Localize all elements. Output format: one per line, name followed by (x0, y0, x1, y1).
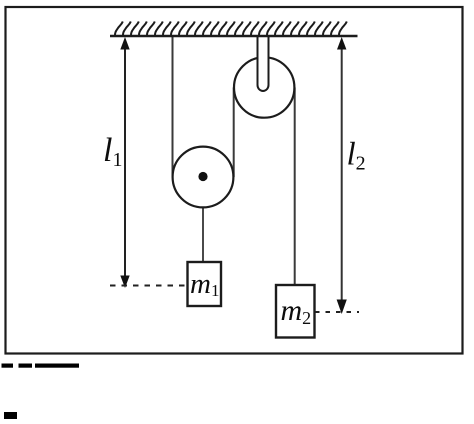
dashed reference line at m1 level (110, 285, 187, 287)
axle of pulley P1 (198, 172, 207, 181)
dashed reference line at m2 level (315, 311, 359, 313)
pulley P2 (fixed) (234, 57, 294, 117)
rope: movable pulley axle to mass m1 (202, 177, 204, 262)
mass m1 box (188, 262, 222, 306)
rope: ceiling to movable pulley (left strand) (172, 36, 174, 177)
bracket of pulley P2 (U-slot hanger) (258, 36, 269, 91)
pulley P1 (movable) (173, 147, 234, 208)
mass m2 box (276, 285, 315, 338)
bottom dash marks (below frame) (2, 364, 80, 368)
bottom-left black mark (4, 412, 17, 419)
rope: fixed pulley to mass m2 (294, 88, 296, 286)
ceiling line (110, 35, 358, 38)
dimension arrow l2 (double-headed, ceiling to m2 level) (337, 37, 347, 314)
dimension arrow l1 (double-headed, ceiling to m1 level) (120, 37, 129, 288)
rope: movable pulley to fixed pulley (middle strand) (233, 88, 235, 178)
outer frame (6, 7, 463, 354)
ceiling hatching (115, 22, 347, 37)
